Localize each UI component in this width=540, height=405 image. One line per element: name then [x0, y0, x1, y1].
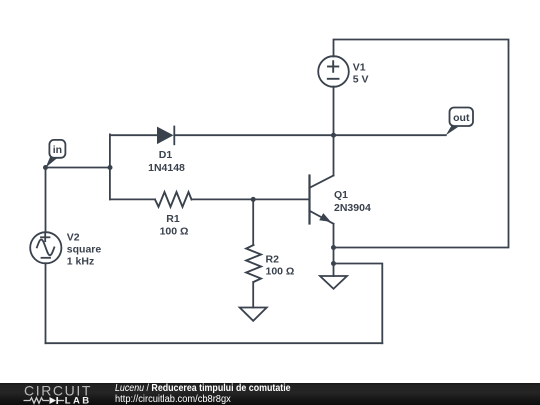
wire: bottom rail: [46, 342, 383, 344]
wire: left rail top: [45, 168, 47, 232]
resistor R1: [155, 192, 192, 238]
svg-text:out: out: [453, 112, 470, 124]
svg-text:100 Ω: 100 Ω: [160, 226, 189, 238]
wire: V1 top to corner: [334, 40, 509, 248]
wire: diode cathode to out flag: [174, 134, 446, 136]
wire: emitter down: [333, 224, 335, 276]
wire: mid vertical x=110: [109, 134, 111, 199]
resistor R2: [246, 245, 294, 282]
svg-text:R1: R1: [166, 213, 180, 225]
node out junction dot: [331, 133, 336, 138]
ground (R2): [240, 308, 267, 321]
voltage source V1: [318, 56, 368, 87]
svg-text:V2: V2: [67, 232, 80, 244]
ground (Q1 emitter): [320, 276, 347, 289]
junction dot R2 tap: [251, 197, 256, 202]
transistor Q1: [310, 176, 371, 224]
CircuitLab logo: [0, 383, 110, 405]
footer title line: [115, 383, 291, 395]
wire: left rail bottom: [45, 263, 47, 343]
svg-text:100 Ω: 100 Ω: [266, 266, 295, 278]
wire: V1 bottom to collector: [333, 87, 335, 176]
svg-text:LAB: LAB: [65, 395, 92, 405]
node in dot: [43, 165, 48, 170]
svg-text:square: square: [67, 244, 102, 256]
diode D1: [148, 127, 185, 175]
wire: R2 top: [252, 199, 254, 245]
footer bar: [0, 383, 540, 405]
svg-text:Q1: Q1: [334, 189, 348, 201]
svg-text:5 V: 5 V: [353, 74, 369, 86]
wire: base wire left: [110, 198, 155, 200]
svg-text:R2: R2: [266, 253, 280, 265]
wire: base wire right: [192, 198, 310, 200]
in flag: [46, 140, 66, 168]
svg-text:1 kHz: 1 kHz: [67, 256, 94, 268]
voltage source V2: [30, 232, 101, 268]
junction dot ground tap: [331, 261, 336, 266]
wire: in node to mid vertical: [46, 167, 111, 169]
svg-text:in: in: [53, 144, 62, 156]
svg-text:D1: D1: [159, 149, 173, 161]
wire: top rail to diode anode: [110, 134, 157, 136]
out flag: [446, 108, 473, 136]
svg-text:2N3904: 2N3904: [334, 202, 371, 214]
wire: R2 bottom: [252, 282, 254, 308]
junction dot emitter/right wire: [331, 245, 336, 250]
footer url line: [115, 394, 231, 405]
wire: ground node to right drop: [334, 264, 383, 344]
svg-text:1N4148: 1N4148: [148, 162, 185, 174]
svg-text:V1: V1: [353, 61, 366, 73]
junction dot mid vertical: [108, 165, 113, 170]
